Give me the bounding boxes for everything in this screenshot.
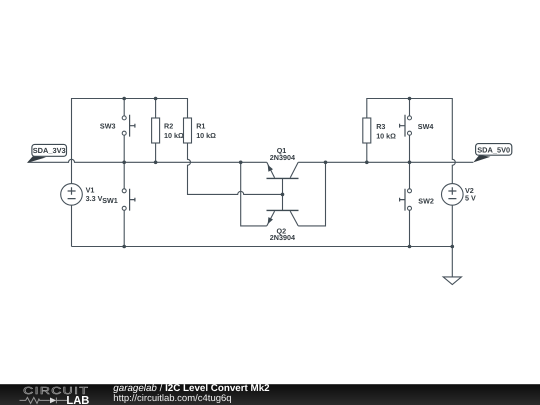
svg-text:SDA_5V0: SDA_5V0	[477, 145, 510, 154]
svg-text:LAB: LAB	[66, 394, 89, 405]
svg-text:10 kΩ: 10 kΩ	[376, 132, 396, 141]
svg-text:SW1: SW1	[102, 196, 118, 205]
svg-text:3.3 V: 3.3 V	[86, 194, 103, 203]
svg-text:R3: R3	[376, 122, 385, 131]
svg-text:SW2: SW2	[418, 196, 434, 205]
svg-text:10 kΩ: 10 kΩ	[164, 131, 184, 140]
svg-text:10 kΩ: 10 kΩ	[196, 131, 216, 140]
svg-text:5 V: 5 V	[465, 194, 476, 203]
svg-text:http://circuitlab.com/c4tug6q: http://circuitlab.com/c4tug6q	[113, 393, 231, 404]
svg-text:2N3904: 2N3904	[270, 153, 295, 162]
svg-text:R2: R2	[164, 122, 173, 131]
svg-text:SW4: SW4	[418, 122, 434, 131]
svg-text:R1: R1	[196, 122, 205, 131]
svg-text:SW3: SW3	[100, 122, 116, 131]
svg-text:2N3904: 2N3904	[270, 233, 295, 242]
svg-text:SDA_3V3: SDA_3V3	[33, 146, 66, 155]
